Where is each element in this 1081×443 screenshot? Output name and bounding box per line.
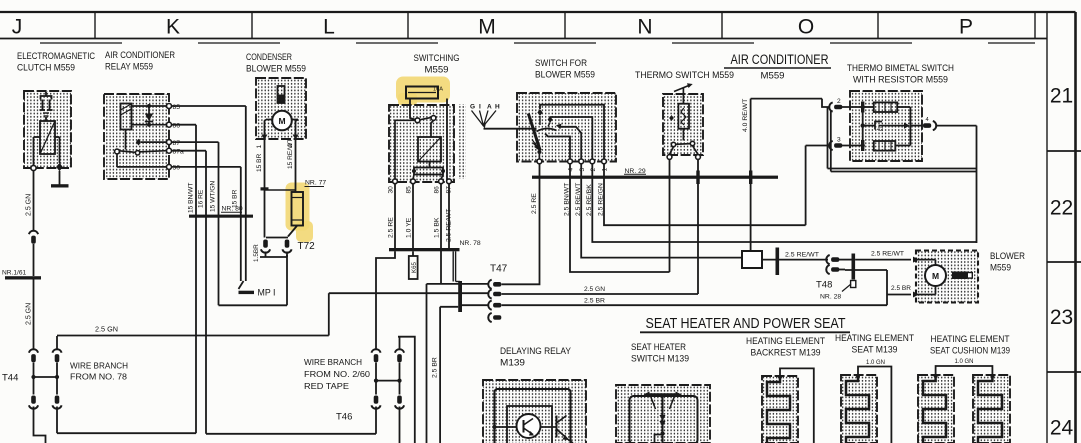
svg-text:SWITCH FOR: SWITCH FOR [535, 58, 587, 68]
svg-text:NR. 28: NR. 28 [820, 294, 841, 301]
svg-text:30: 30 [173, 165, 181, 172]
svg-text:DELAYING RELAY: DELAYING RELAY [500, 346, 571, 356]
svg-text:BLOWER: BLOWER [990, 251, 1025, 261]
svg-text:30: 30 [387, 186, 394, 194]
svg-text:M: M [478, 16, 496, 39]
svg-text:1.0 GN: 1.0 GN [866, 359, 885, 366]
svg-text:85: 85 [173, 104, 181, 111]
svg-text:NR.1/61: NR.1/61 [2, 270, 27, 277]
svg-text:M559: M559 [990, 263, 1011, 273]
svg-text:22: 22 [1050, 197, 1073, 220]
svg-text:23: 23 [1050, 306, 1073, 329]
svg-text:1: 1 [256, 145, 263, 149]
svg-text:85: 85 [405, 186, 412, 194]
svg-text:T44: T44 [2, 373, 18, 384]
svg-text:CONDENSER: CONDENSER [246, 52, 292, 62]
svg-text:NR. 29: NR. 29 [625, 168, 646, 175]
svg-text:SEAT HEATER AND POWER SEAT: SEAT HEATER AND POWER SEAT [646, 316, 846, 332]
svg-text:1: 1 [602, 168, 609, 172]
svg-text:SWITCHING: SWITCHING [414, 53, 460, 63]
svg-text:SEAT M139: SEAT M139 [852, 345, 898, 355]
svg-text:2.5 BR: 2.5 BR [584, 297, 605, 304]
svg-text:SWITCH M139: SWITCH M139 [631, 354, 689, 364]
svg-text:ELECTROMAGNETIC: ELECTROMAGNETIC [17, 51, 95, 61]
svg-text:1.0 GN: 1.0 GN [955, 358, 974, 365]
svg-text:BACKREST M139: BACKREST M139 [751, 348, 821, 358]
svg-text:15 WT/GN: 15 WT/GN [210, 181, 217, 212]
svg-text:THERMO BIMETAL SWITCH: THERMO BIMETAL SWITCH [847, 63, 954, 73]
svg-text:K65: K65 [411, 261, 418, 273]
svg-text:HEATING ELEMENT: HEATING ELEMENT [835, 333, 914, 343]
svg-text:87: 87 [173, 140, 181, 147]
svg-text:T48: T48 [816, 280, 832, 291]
svg-text:2.5 BR: 2.5 BR [891, 285, 911, 292]
svg-text:2.5 RE/WT: 2.5 RE/WT [871, 251, 904, 258]
svg-text:2.5 RE/WT: 2.5 RE/WT [785, 252, 819, 259]
svg-text:MP I: MP I [258, 288, 276, 298]
svg-text:NR. 80: NR. 80 [222, 206, 243, 213]
svg-text:15 BR: 15 BR [256, 153, 263, 172]
svg-text:21: 21 [1050, 85, 1073, 108]
svg-text:RED TAPE: RED TAPE [304, 382, 350, 391]
svg-text:AIR CONDITIONER: AIR CONDITIONER [105, 50, 175, 60]
svg-text:T46: T46 [336, 412, 352, 423]
svg-text:2.5 BR: 2.5 BR [432, 357, 439, 378]
svg-text:L: L [323, 16, 335, 39]
svg-text:3: 3 [579, 168, 586, 172]
svg-text:2: 2 [837, 98, 841, 105]
svg-text:2: 2 [590, 168, 597, 172]
svg-text:WIRE BRANCH: WIRE BRANCH [304, 358, 362, 367]
svg-text:16A: 16A [433, 87, 443, 93]
svg-text:3: 3 [837, 137, 841, 144]
svg-text:M: M [932, 271, 939, 281]
svg-text:WITH RESISTOR M559: WITH RESISTOR M559 [853, 75, 948, 85]
svg-text:G: G [470, 104, 475, 111]
svg-text:HEATING ELEMENT: HEATING ELEMENT [746, 336, 825, 346]
svg-text:HEATING ELEMENT: HEATING ELEMENT [931, 334, 1010, 344]
svg-text:NR. 78: NR. 78 [460, 240, 481, 247]
svg-text:FROM NO. 2/60: FROM NO. 2/60 [304, 370, 370, 379]
svg-text:AIR CONDITIONER: AIR CONDITIONER [731, 52, 829, 67]
svg-text:M559: M559 [425, 65, 449, 75]
svg-text:M: M [278, 116, 285, 126]
svg-text:FROM NO. 78: FROM NO. 78 [70, 373, 127, 382]
svg-text:O: O [798, 16, 814, 39]
svg-text:2.5 GN: 2.5 GN [26, 194, 33, 216]
svg-text:T47: T47 [490, 264, 508, 275]
svg-text:A: A [487, 104, 492, 111]
svg-text:BLOWER M559: BLOWER M559 [535, 70, 595, 80]
svg-text:15 BN/WT: 15 BN/WT [188, 183, 195, 213]
svg-text:1.0 YE: 1.0 YE [405, 217, 412, 238]
svg-text:1.5BR: 1.5BR [253, 244, 260, 262]
svg-text:87a: 87a [173, 149, 185, 156]
svg-text:THERMO SWITCH M559: THERMO SWITCH M559 [635, 70, 734, 80]
svg-text:15 RE/WT: 15 RE/WT [287, 139, 294, 169]
svg-text:WIRE BRANCH: WIRE BRANCH [70, 362, 128, 371]
svg-text:T72: T72 [298, 241, 316, 252]
svg-text:SEAT HEATER: SEAT HEATER [631, 342, 686, 352]
svg-text:M139: M139 [500, 358, 525, 368]
svg-text:2.5 RE: 2.5 RE [531, 193, 538, 214]
svg-text:4.0 RE/WT: 4.0 RE/WT [742, 99, 749, 132]
svg-text:86: 86 [433, 186, 440, 194]
svg-text:K: K [166, 16, 180, 39]
svg-text:M559: M559 [761, 71, 785, 81]
svg-text:24: 24 [1050, 417, 1074, 440]
svg-text:J: J [12, 16, 23, 39]
svg-text:42: 42 [877, 127, 883, 133]
svg-text:4: 4 [568, 168, 575, 172]
svg-text:SEAT CUSHION M139: SEAT CUSHION M139 [930, 346, 1010, 356]
svg-text:2.5 GN: 2.5 GN [584, 286, 605, 293]
svg-text:1.5 BK: 1.5 BK [433, 217, 440, 238]
svg-text:86: 86 [173, 123, 181, 130]
svg-text:NR. 77: NR. 77 [305, 180, 326, 187]
svg-text:CLUTCH M559: CLUTCH M559 [17, 63, 75, 73]
svg-text:16 RE: 16 RE [198, 189, 205, 208]
svg-text:P: P [959, 16, 973, 39]
svg-text:H: H [495, 104, 500, 111]
svg-text:2.5 GN: 2.5 GN [95, 327, 118, 334]
svg-text:2.5 RE: 2.5 RE [387, 217, 394, 238]
svg-text:2.5 GN: 2.5 GN [26, 303, 33, 325]
svg-text:BLOWER M559: BLOWER M559 [246, 64, 306, 74]
svg-text:N: N [637, 16, 652, 39]
svg-text:I: I [479, 104, 481, 111]
svg-text:RELAY M559: RELAY M559 [105, 62, 153, 72]
